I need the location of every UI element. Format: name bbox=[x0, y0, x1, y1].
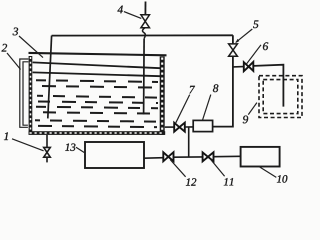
label 11 bbox=[224, 178, 233, 185]
leader 11 bbox=[211, 160, 225, 177]
pipe: supply from top bbox=[144, 2, 146, 15]
label 5 bbox=[253, 20, 258, 28]
leader 3 bbox=[19, 36, 43, 58]
branch pipe to box 9 bbox=[233, 66, 244, 68]
label 7 bbox=[189, 86, 194, 94]
label 3 bbox=[13, 28, 18, 36]
tank 3 top edge bbox=[29, 53, 167, 55]
leader 9 bbox=[248, 103, 257, 115]
valve 7 bbox=[174, 123, 185, 132]
outer container 2 (thin double-wall jacket, open top) bbox=[20, 59, 29, 127]
pipe valve7 to box8 bbox=[185, 126, 193, 128]
label 8 bbox=[213, 84, 218, 92]
valve 4 bbox=[141, 15, 150, 28]
label 10 bbox=[277, 175, 287, 182]
drain stub bbox=[46, 157, 48, 162]
leader 4 bbox=[124, 12, 141, 19]
leader 7 bbox=[176, 95, 190, 123]
tank 3 left wall (hatched band) bbox=[29, 56, 33, 132]
label 1 bbox=[4, 132, 8, 140]
bottom pipe: box13 to valve12 bbox=[144, 157, 163, 160]
tank 3 right wall (hatched band) bbox=[160, 57, 165, 135]
pipe: left dip tube bbox=[48, 36, 52, 119]
riser pipe right bbox=[213, 35, 233, 126]
pipe valve11 to box10 bbox=[214, 155, 241, 157]
box 10 bbox=[241, 147, 280, 167]
tank drain pipe bbox=[46, 135, 48, 147]
leader 13 bbox=[76, 147, 86, 153]
dashed box 9 outer bbox=[259, 76, 302, 118]
label 9 bbox=[243, 116, 248, 124]
label 13 bbox=[65, 144, 75, 151]
valve 5 bbox=[229, 44, 238, 56]
tank 3 bottom (hatched band) bbox=[29, 131, 166, 135]
leader 1 bbox=[12, 139, 44, 151]
valve 11 bbox=[203, 152, 214, 161]
junction drop pipe bbox=[188, 127, 190, 157]
leader 10 bbox=[259, 167, 276, 178]
water surface line bbox=[33, 72, 161, 76]
pipe tank to valve 7 bbox=[165, 126, 174, 128]
leader 2 bbox=[7, 53, 21, 70]
pipe: top manifold bbox=[52, 34, 233, 36]
water dashes bbox=[34, 80, 158, 127]
leader 5 with arrowhead bbox=[235, 29, 252, 43]
valve 12 bbox=[163, 152, 173, 161]
box 13 bbox=[85, 142, 144, 168]
box 8 bbox=[193, 120, 212, 131]
label 2 bbox=[2, 44, 7, 52]
dashed box 9 inner bbox=[263, 80, 298, 114]
label 4 bbox=[117, 6, 122, 14]
tank inner rim line bbox=[33, 62, 161, 68]
S-jog crossing bbox=[142, 28, 145, 39]
valve 6 bbox=[244, 62, 254, 71]
pipe: dip tube 4 into tank bbox=[143, 39, 146, 115]
label 12 bbox=[186, 178, 196, 185]
pipe valve12 to valve11 bbox=[174, 156, 203, 158]
valve 1 bbox=[44, 147, 51, 157]
leader 12 bbox=[170, 160, 185, 177]
leader 8 bbox=[203, 95, 211, 120]
leader 6 bbox=[246, 45, 261, 64]
label 6 bbox=[263, 42, 268, 50]
